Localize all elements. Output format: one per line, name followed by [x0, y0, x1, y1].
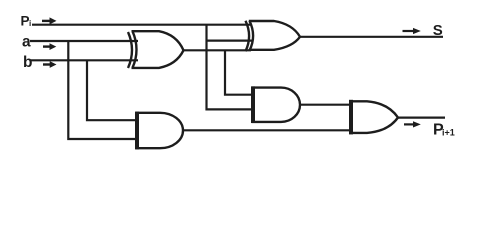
wire b — [30, 59, 138, 61]
wire U1-output branch to AND1 upper input — [225, 50, 252, 94]
wire U3 output — [300, 104, 351, 106]
wire a — [30, 40, 138, 42]
wire XOR2 lower input tap — [207, 39, 254, 41]
node Pi+1 label — [433, 121, 455, 138]
xor gate U2 (sum) — [246, 21, 301, 52]
wire Pi+1 output — [398, 116, 445, 118]
svg-text:a: a — [22, 34, 31, 51]
input arrow Pi — [42, 17, 57, 24]
wire U1 output (a xor b) — [184, 49, 252, 51]
wire Pi — [32, 24, 251, 26]
node Pi label — [21, 13, 32, 28]
and gate U4 (bottom, a and b) — [136, 112, 184, 150]
wire S output — [300, 36, 443, 38]
wire a-branch to AND2 lower input — [68, 41, 136, 139]
input arrow a — [43, 43, 56, 50]
svg-text:i+1: i+1 — [442, 128, 455, 138]
and gate U3 (top right) — [252, 86, 301, 123]
xor gate U1 (a xor b) — [128, 31, 184, 68]
svg-text:S: S — [433, 22, 443, 39]
input arrow b — [43, 61, 57, 68]
svg-text:b: b — [23, 54, 32, 71]
wire Pi-branch to AND1 lower input — [207, 25, 253, 110]
wire U4 output — [183, 129, 351, 131]
svg-text:i: i — [29, 19, 31, 28]
output arrow Pi+1 — [404, 121, 421, 127]
wire b-branch to AND2 upper input — [87, 60, 136, 120]
or gate U5 (carry out) — [350, 100, 399, 135]
output arrow S — [403, 28, 421, 34]
